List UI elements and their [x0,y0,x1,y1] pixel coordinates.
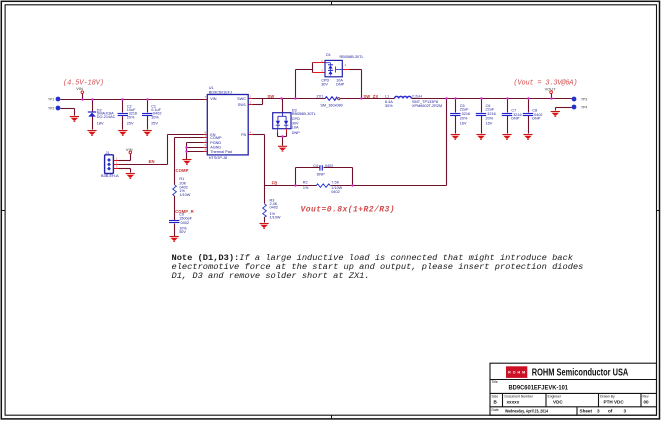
svg-text:BD9C601EFJEVK-101: BD9C601EFJEVK-101 [509,385,569,392]
svg-text:30%: 30% [385,104,393,108]
svg-text:10%: 10% [151,115,159,119]
svg-text:0402: 0402 [181,221,189,225]
svg-text:ROHM: ROHM [508,371,525,375]
svg-text:XPM6602T-2R2M: XPM6602T-2R2M [412,104,442,108]
svg-text:L1: L1 [385,95,389,99]
svg-text:Title: Title [492,380,498,384]
svg-text:Document Number: Document Number [505,395,534,399]
svg-text:3: 3 [597,408,600,413]
svg-text:(4.5V-18V): (4.5V-18V) [63,79,104,87]
svg-text:0402: 0402 [325,164,333,168]
svg-text:Sheet: Sheet [580,408,593,413]
svg-text:25V: 25V [151,122,158,126]
svg-text:VIN: VIN [210,97,217,101]
svg-text:3: 3 [624,408,627,413]
svg-text:VIN: VIN [76,86,83,91]
svg-text:FB: FB [241,133,246,137]
svg-text:TP2: TP2 [48,106,54,110]
svg-text:1%: 1% [303,186,309,190]
svg-text:PGND: PGND [210,141,221,145]
svg-text:PTH VDC: PTH VDC [604,400,625,405]
svg-text:U1: U1 [209,86,214,90]
svg-text:18V: 18V [97,122,104,126]
svg-text:3216: 3216 [462,112,470,116]
svg-text:SW_ZX: SW_ZX [363,94,378,99]
svg-text:30V: 30V [321,83,328,87]
svg-text:D1: D1 [326,53,331,57]
svg-text:0402: 0402 [270,205,278,209]
svg-text:VDC: VDC [553,400,563,405]
svg-text:2.2uH: 2.2uH [412,95,422,99]
svg-text:16V: 16V [486,121,493,125]
svg-text:C8: C8 [532,108,537,112]
svg-text:16V: 16V [460,121,467,125]
svg-text:HTSOP-J8: HTSOP-J8 [209,156,227,160]
svg-text:DNP: DNP [532,117,540,121]
svg-text:1/10W: 1/10W [179,193,190,197]
svg-text:SW1: SW1 [238,103,246,107]
svg-text:VOUT: VOUT [545,86,557,91]
svg-text:C4: C4 [313,164,318,168]
svg-text:EN: EN [149,159,155,164]
svg-text:J1: J1 [106,151,110,155]
svg-text:COMP: COMP [210,136,222,140]
svg-text:R2: R2 [303,181,308,185]
svg-text:Engineer: Engineer [548,395,562,399]
svg-text:25V: 25V [127,122,134,126]
svg-text:Vout=0.8x(1+R2/R3): Vout=0.8x(1+R2/R3) [301,206,395,215]
svg-text:TP1: TP1 [48,97,54,101]
svg-text:xxxxx: xxxxx [507,400,520,405]
svg-text:CPD: CPD [292,117,300,121]
svg-text:COMP_R: COMP_R [175,209,194,214]
svg-text:RB058B-30TL: RB058B-30TL [340,55,364,59]
svg-text:Wednesday, April 23, 2014: Wednesday, April 23, 2014 [505,408,548,413]
svg-text:Size: Size [492,395,499,399]
svg-text:TP3: TP3 [581,98,587,102]
svg-text:00: 00 [644,400,650,405]
svg-text:DO-214AC: DO-214AC [97,115,116,119]
svg-text:Thermal Pad: Thermal Pad [210,150,232,154]
svg-text:FB: FB [272,181,278,186]
svg-text:DNP: DNP [317,173,325,177]
svg-text:RB058B-30TL: RB058B-30TL [292,112,316,116]
svg-text:AGND: AGND [210,146,221,150]
svg-text:DNP: DNP [511,117,519,121]
svg-text:ZX1: ZX1 [316,95,323,99]
svg-text:SW: SW [267,94,274,99]
svg-text:DNP: DNP [292,131,300,135]
svg-text:3216: 3216 [487,112,495,116]
svg-text:20%: 20% [486,117,494,121]
svg-text:20%: 20% [127,115,135,119]
svg-text:Date: Date [492,408,499,412]
svg-text:VIN: VIN [126,147,133,152]
svg-text:1/10W: 1/10W [270,215,281,219]
svg-text:7.5K: 7.5K [331,181,339,185]
svg-text:20%: 20% [460,117,468,121]
svg-text:SM_160x080: SM_160x080 [320,104,342,108]
svg-text:of: of [608,408,613,413]
svg-text:C7: C7 [511,108,516,112]
svg-text:Drawn By: Drawn By [600,395,615,399]
svg-text:Rev: Rev [643,395,649,399]
svg-text:1500pF: 1500pF [179,216,193,220]
svg-text:D1, D3 and remove solder short: D1, D3 and remove solder short at ZX1. [172,271,370,281]
svg-text:50V: 50V [179,230,186,234]
svg-text:DNP: DNP [336,83,344,87]
svg-text:10A: 10A [292,125,299,129]
svg-text:0402: 0402 [331,190,339,194]
svg-text:B3B-EH-A: B3B-EH-A [101,174,119,178]
svg-text:COMP: COMP [176,168,189,173]
svg-text:ROHM Semiconductor USA: ROHM Semiconductor USA [532,368,629,379]
svg-text:BD9C601EFJ: BD9C601EFJ [209,91,232,95]
svg-text:TP4: TP4 [581,106,587,110]
svg-text:SWC: SWC [237,97,246,101]
